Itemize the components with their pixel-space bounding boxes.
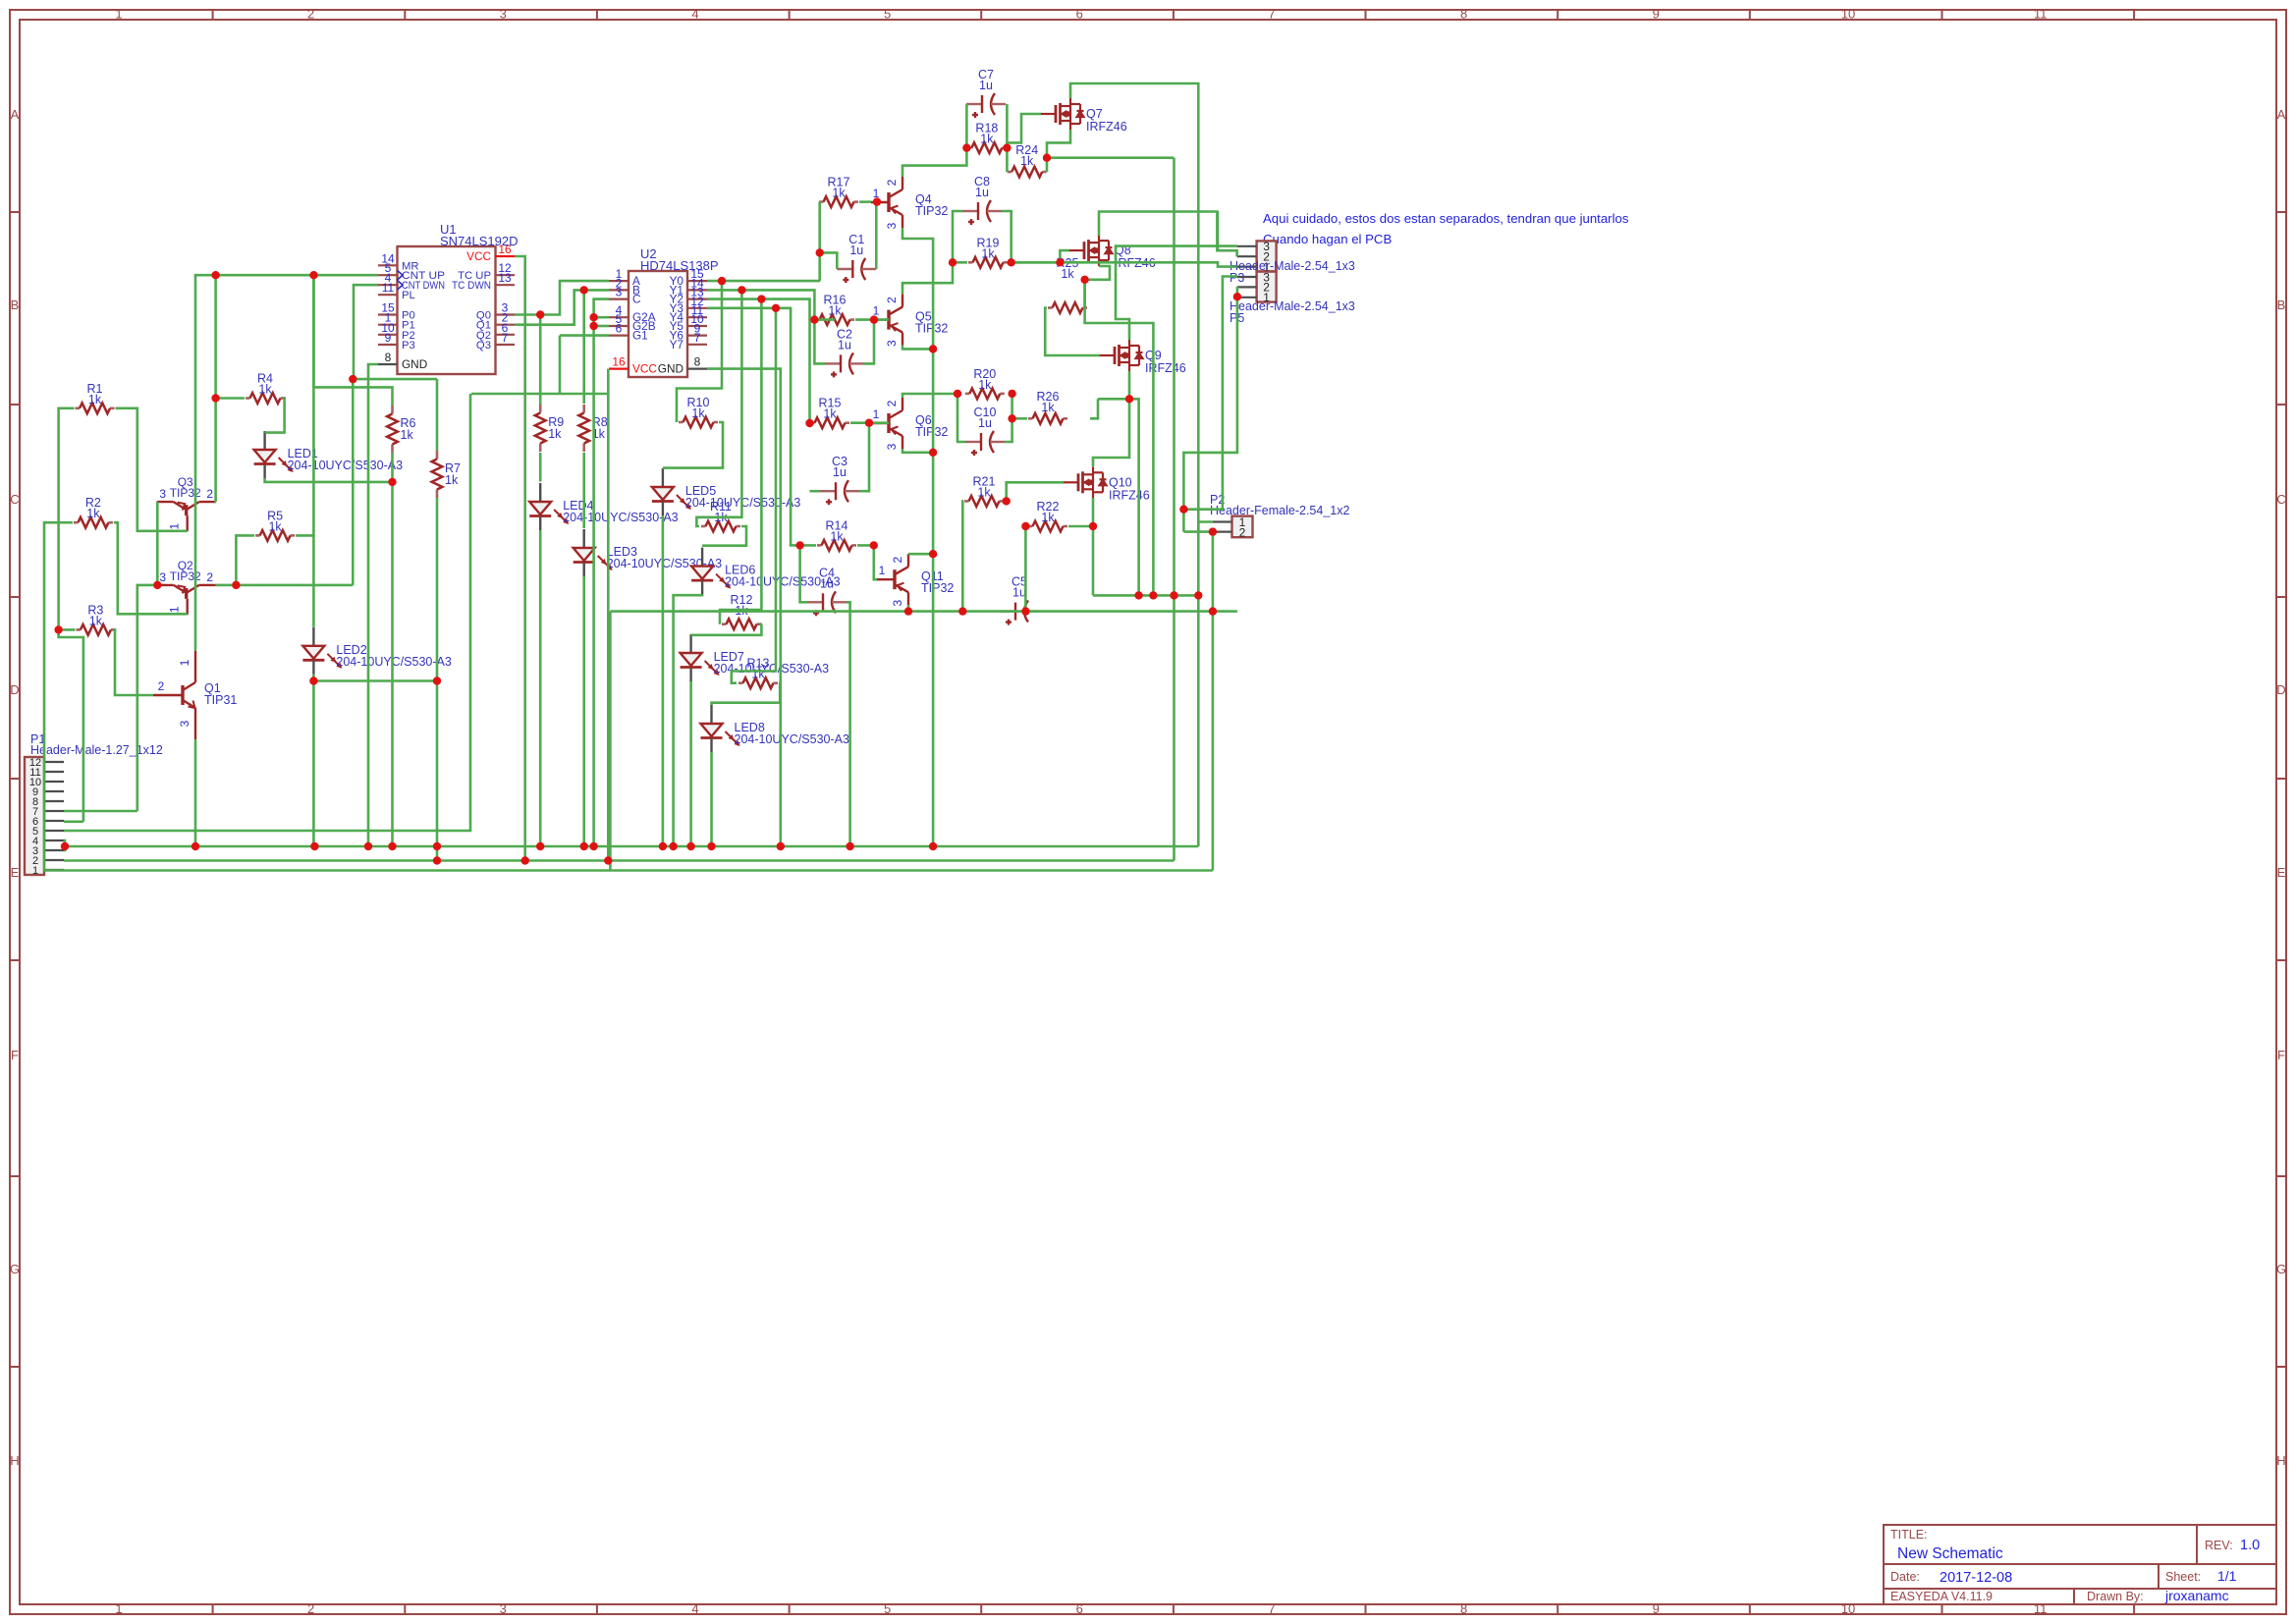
wire R19.right to Q8 gate [1009, 250, 1069, 262]
frame column tick top [212, 10, 214, 20]
svg-text:1.0: 1.0 [2240, 1538, 2260, 1553]
wire LED7 cathode to GND row [689, 681, 692, 846]
P3 pin 2 stub [1237, 255, 1257, 257]
svg-text:VCC: VCC [632, 362, 657, 376]
svg-text:G1: G1 [632, 329, 648, 343]
junction [1125, 395, 1133, 403]
wire P5.1 column [1183, 297, 1237, 531]
wire Q0 drop to R9 [539, 315, 542, 406]
wire R24 column down [1173, 158, 1175, 861]
wire Q1 emitter to GND row [194, 739, 197, 846]
svg-text:2: 2 [1239, 526, 1246, 540]
junction [433, 677, 441, 684]
P1 pin 11 stub [44, 771, 64, 773]
resistor R18 [967, 146, 972, 149]
frame column tick bottom [596, 1604, 598, 1614]
transistor Q5 [871, 295, 902, 346]
wire VCC bus to P1.5 [64, 394, 470, 831]
wire R7 bottom to bus [436, 498, 439, 861]
P1 pin 12 stub [44, 761, 64, 763]
junction [604, 856, 612, 864]
svg-text:2: 2 [307, 7, 314, 22]
wire Y1 to R16 [707, 290, 814, 319]
svg-text:1k: 1k [1061, 267, 1074, 281]
LED LED4 [529, 483, 569, 530]
wire C4.right to GND row [847, 602, 850, 846]
svg-text:H: H [10, 1453, 19, 1468]
svg-text:TIP32: TIP32 [921, 581, 954, 595]
wire Q11 emitter down [907, 605, 910, 611]
wire R2.left to P1.1 row [44, 522, 73, 870]
wire C1.left tap [820, 252, 838, 269]
junction [904, 607, 912, 615]
wire R11 to LED6 [702, 526, 746, 546]
svg-text:1: 1 [879, 564, 886, 577]
svg-text:204-10UYC/S530-A3: 204-10UYC/S530-A3 [725, 575, 840, 589]
svg-text:Header-Male-1.27_1x12: Header-Male-1.27_1x12 [30, 743, 163, 757]
svg-text:B: B [11, 298, 20, 312]
P5 pin 3 stub [1237, 276, 1257, 278]
IC U2 HD74LS138P [629, 271, 687, 377]
wire C1.right to Q4 base [875, 202, 878, 269]
frame column tick bottom [1173, 1604, 1175, 1614]
svg-text:GND: GND [402, 357, 427, 371]
wire Q9 source down [1128, 371, 1131, 399]
junction [536, 842, 544, 850]
wire R25.right drop [1083, 280, 1086, 308]
P1 pin 5 stub [44, 830, 64, 832]
svg-text:Date:: Date: [1890, 1570, 1920, 1584]
svg-text:3: 3 [885, 443, 899, 450]
svg-text:3: 3 [159, 487, 166, 501]
wire C8.right to R19.right [1002, 211, 1011, 262]
wire Q6 emitter to column [902, 449, 933, 453]
P1 pin 3 stub [44, 849, 64, 851]
svg-text:IRFZ46: IRFZ46 [1109, 488, 1150, 502]
svg-text:3: 3 [891, 600, 904, 607]
U2 GND pin 8 [687, 368, 707, 370]
svg-text:13: 13 [498, 271, 512, 285]
junction [1194, 591, 1202, 599]
svg-text:5: 5 [884, 1601, 891, 1616]
junction [1002, 497, 1010, 505]
wire P1.6 run [64, 820, 83, 823]
wire Q8 source jog [1085, 266, 1110, 280]
LED LED3 [574, 529, 613, 576]
wire C2.right loop [864, 320, 874, 364]
wire CNT UP drop to R5.right/LED2 [312, 275, 315, 626]
svg-text:7: 7 [502, 331, 509, 345]
svg-text:1u: 1u [849, 244, 863, 257]
frame column tick bottom [980, 1604, 982, 1614]
frame column tick top [1173, 10, 1175, 20]
U1 pin 5 CNT UP [378, 274, 398, 276]
frame row tick right [2276, 211, 2286, 213]
wire Y2 to R12 [720, 299, 761, 624]
resistor R9 [539, 405, 542, 413]
wire R21.right node [1005, 500, 1007, 503]
svg-text:Aqui cuidado, estos dos estan: Aqui cuidado, estos dos estan separados,… [1263, 211, 1629, 226]
U1 pin 3 Q0 [496, 313, 516, 315]
resistor R24 [1008, 171, 1012, 174]
frame column tick top [789, 10, 791, 20]
junction [962, 143, 970, 151]
wire Y0 to R10 [677, 281, 722, 422]
U2 pin 1 A [609, 280, 629, 282]
P1 pin 1 stub [44, 869, 64, 871]
transistor Q6 [871, 398, 902, 449]
resistor R5 [255, 534, 260, 537]
frame row tick right [2276, 1366, 2286, 1368]
junction [54, 625, 62, 633]
svg-text:1u: 1u [833, 465, 847, 479]
LED LED1 [254, 431, 294, 478]
junction [1021, 522, 1029, 530]
svg-text:1k: 1k [445, 473, 459, 487]
wire Q5 emitter to column [902, 346, 933, 350]
wire R5.right stub [296, 534, 313, 537]
svg-text:3: 3 [616, 286, 623, 299]
junction [589, 313, 597, 321]
frame column tick bottom [2133, 1604, 2135, 1614]
header P3 Header-Male-2.54_1x3 [1257, 241, 1277, 271]
wire P1.4-P1.3 tie [64, 840, 65, 850]
U2 pin 6 G1 [609, 335, 629, 337]
U1 pin 12 TC UP [496, 274, 516, 276]
wire G1 run [560, 334, 609, 337]
svg-text:Header-Male-2.54_1x3: Header-Male-2.54_1x3 [1230, 299, 1355, 313]
svg-text:8: 8 [1460, 7, 1467, 22]
junction [61, 842, 69, 850]
wire LED3 cathode to GND row [582, 576, 585, 846]
junction [772, 304, 780, 312]
LED LED2 [302, 627, 342, 675]
junction [659, 842, 667, 850]
wire R22.left link [1025, 525, 1027, 528]
wire LED1 cathode run [265, 478, 393, 482]
svg-text:1k: 1k [89, 614, 103, 627]
junction [521, 856, 529, 864]
frame row tick right [2276, 596, 2286, 598]
svg-text:204-10UYC/S530-A3: 204-10UYC/S530-A3 [735, 732, 849, 746]
junction [1056, 258, 1064, 266]
svg-text:1: 1 [115, 1601, 122, 1616]
capacitor C3 [820, 480, 859, 505]
svg-text:3: 3 [178, 720, 191, 727]
svg-text:E: E [11, 865, 20, 880]
junction [810, 315, 818, 323]
junction [949, 258, 957, 266]
wire R26.left link [1012, 417, 1027, 420]
svg-text:Q3: Q3 [476, 340, 491, 352]
capacitor C4 [807, 591, 847, 616]
junction [1149, 591, 1157, 599]
svg-text:9: 9 [385, 331, 392, 345]
junction [364, 842, 372, 850]
junction [1209, 607, 1217, 615]
svg-text:9: 9 [1653, 1601, 1660, 1616]
wire LED8 cathode to GND row [710, 752, 713, 846]
wire LED6 cathode to GND row [674, 595, 703, 846]
mosfet Q10 [1063, 466, 1107, 498]
U1 pin 10 P2 [378, 334, 398, 336]
junction [211, 271, 219, 279]
junction [958, 607, 966, 615]
svg-text:2: 2 [307, 1601, 314, 1616]
capacitor C8 [962, 200, 1002, 225]
svg-text:1u: 1u [838, 338, 851, 352]
svg-text:4: 4 [691, 1601, 698, 1616]
svg-text:1: 1 [115, 7, 122, 22]
svg-text:TITLE:: TITLE: [1890, 1528, 1928, 1542]
wire G2B stub [594, 325, 609, 328]
frame column tick bottom [212, 1604, 214, 1614]
wire C10.right loop [1005, 394, 1012, 442]
svg-text:Q10: Q10 [1109, 475, 1132, 489]
frame column tick top [596, 10, 598, 20]
svg-text:1k: 1k [401, 428, 414, 442]
wire R26 net to Q9 source [1098, 398, 1129, 401]
junction [1179, 506, 1187, 514]
wire C7.left to R18.left [965, 104, 968, 148]
wire Q8 drain to P3.2 [1099, 212, 1237, 257]
U1 pin 9 P3 [378, 344, 398, 346]
mosfet Q7 [1040, 98, 1084, 130]
svg-text:Q7: Q7 [1086, 107, 1103, 121]
LED LED8 [701, 705, 740, 752]
resistor R15 [810, 421, 815, 424]
svg-text:F: F [2277, 1048, 2285, 1062]
frame row tick left [10, 959, 20, 961]
wire R7 top riser [436, 379, 439, 451]
junction [1209, 527, 1217, 535]
junction [870, 541, 878, 549]
U1 pin 11 PL [378, 294, 398, 296]
wire C/G2A/G2B chain down [594, 299, 609, 846]
wire GND bus row [65, 845, 1198, 848]
junction [310, 842, 318, 850]
frame column tick top [1365, 10, 1367, 20]
junction [929, 449, 937, 457]
wire LED2 cathode to GND row [312, 681, 315, 847]
wire CNT DWN run [354, 378, 437, 381]
wire U2 VCC down [607, 369, 610, 861]
junction [536, 310, 544, 318]
frame column tick bottom [1365, 1604, 1367, 1614]
svg-text:PL: PL [402, 290, 415, 301]
wire Q2.collector run [216, 584, 354, 587]
wire Q9 source to Q10 drain [1093, 399, 1129, 466]
svg-text:1k: 1k [86, 507, 100, 520]
wire R6 top to CNT UP [314, 275, 393, 406]
resistor R6 [391, 406, 394, 414]
P5 pin 1 stub [1237, 297, 1257, 298]
wire R19.left link [953, 261, 967, 264]
svg-text:2017-12-08: 2017-12-08 [1940, 1570, 2012, 1586]
wire Q9 source to out row [1129, 399, 1139, 595]
wire LED2 cathode to R7 column [313, 675, 437, 681]
wire R26.right riser [1090, 399, 1098, 418]
wire R21 to Q10 gate [1007, 482, 1064, 501]
U2 VCC pin 16 [609, 368, 629, 370]
P5 pin 2 stub [1237, 286, 1257, 288]
wire Q2.3 to P1.7 [137, 585, 157, 811]
wire R22.left drop to mid row [1024, 526, 1027, 612]
frame column tick top [1941, 10, 1943, 20]
transistor Q11 [877, 554, 908, 605]
wire R15.right to Q6 base [850, 421, 889, 424]
resistor R8 [582, 405, 585, 413]
junction [1134, 591, 1142, 599]
frame column tick top [404, 10, 406, 20]
wire R4.right to LED1 [265, 399, 286, 433]
svg-text:3: 3 [500, 7, 507, 22]
wire G1 drop [559, 336, 562, 394]
wire Q4 emitter chain [902, 228, 933, 846]
capacitor C10 [965, 431, 1005, 456]
wire R10 to LED5 [663, 422, 723, 468]
wire P1.7 run [64, 810, 137, 813]
wire C2.left loop [814, 320, 825, 364]
U2 pin 5 G2B [609, 325, 629, 327]
wire C10.left loop [957, 394, 965, 442]
P1 pin 9 stub [44, 790, 64, 792]
wire R17.right to base node [859, 200, 871, 203]
junction [589, 842, 597, 850]
resistor R20 [965, 393, 970, 396]
U1 pin 4 CNT DWN [378, 284, 398, 286]
frame column tick bottom [1557, 1604, 1558, 1614]
svg-text:1k: 1k [981, 246, 995, 260]
svg-text:1u: 1u [978, 416, 992, 430]
wire R25.left to Q9 gate [1045, 308, 1100, 356]
wire R13 to LED8 [712, 683, 781, 705]
svg-text:REV:: REV: [2205, 1539, 2233, 1552]
svg-text:1k: 1k [88, 393, 102, 406]
U2 pin 10 Y5 [687, 325, 707, 327]
junction [816, 248, 824, 256]
resistor R4 [246, 397, 250, 400]
wire mid row right drop [1212, 612, 1215, 871]
wire C4.left loop [800, 545, 807, 602]
svg-text:2: 2 [206, 487, 213, 501]
P2 pin 2 stub [1213, 530, 1232, 532]
wire Q6 collector to R20.left [902, 394, 957, 398]
frame row tick left [10, 596, 20, 598]
U1 pin 15 P0 [378, 313, 398, 315]
svg-text:1k: 1k [548, 427, 562, 441]
svg-text:1k: 1k [268, 519, 282, 533]
U1 GND pin 8 [378, 363, 398, 365]
wire C3.left lead link [810, 490, 821, 493]
junction [738, 286, 745, 294]
wire C7.right to R18.right [1006, 104, 1009, 148]
svg-text:2: 2 [885, 179, 899, 186]
junction [929, 345, 937, 352]
mosfet Q9 [1099, 340, 1143, 371]
svg-text:2: 2 [885, 297, 899, 303]
svg-text:7: 7 [694, 331, 701, 345]
svg-text:2: 2 [158, 679, 165, 693]
svg-text:Drawn By:: Drawn By: [2087, 1590, 2144, 1603]
svg-text:1k: 1k [1020, 154, 1034, 168]
junction [589, 322, 597, 330]
wire CNT UP drop to Q3.2 [214, 275, 217, 502]
wire Y1 to R11 [696, 290, 741, 526]
svg-text:2: 2 [206, 570, 213, 584]
wire long mid row [610, 610, 1237, 613]
wire mid row drop to P1.1 row [609, 612, 612, 871]
resistor R7 [436, 451, 439, 460]
junction [795, 541, 803, 549]
U1 pin 4 clock mark [398, 281, 404, 291]
junction [1003, 143, 1011, 151]
svg-text:jroxanamc: jroxanamc [2164, 1588, 2229, 1603]
svg-text:EASYEDA V4.11.9: EASYEDA V4.11.9 [1890, 1590, 1993, 1603]
wire Y3 to R14 [707, 308, 816, 546]
wire Q7 drain to column [1070, 83, 1198, 846]
junction [388, 842, 396, 850]
svg-text:10: 10 [1841, 1601, 1855, 1616]
resistor R19 [968, 261, 973, 264]
junction [954, 390, 961, 398]
frame column tick bottom [1749, 1604, 1751, 1614]
svg-text:8: 8 [694, 355, 701, 369]
junction [388, 478, 396, 486]
junction [433, 856, 441, 864]
wire Q7 source jog [1047, 130, 1070, 158]
wire R6 bottom to GND row [391, 453, 394, 846]
svg-text:11: 11 [2034, 7, 2048, 22]
svg-text:1k: 1k [828, 304, 842, 318]
svg-text:3: 3 [159, 570, 166, 584]
wire Q1 to B [515, 290, 609, 324]
svg-text:8: 8 [385, 351, 392, 364]
junction [580, 286, 588, 294]
svg-text:1: 1 [178, 659, 191, 666]
resistor R21 [964, 500, 969, 503]
wire R3.right to Q1 base [115, 629, 153, 695]
wire R14.right to Q11 base [874, 545, 877, 579]
capacitor C7 [966, 93, 1006, 118]
wire R12 to LED7 [691, 624, 762, 635]
U2 pin 15 Y0 [687, 280, 707, 282]
svg-text:1k: 1k [832, 187, 846, 200]
svg-text:1: 1 [32, 865, 38, 877]
svg-text:VCC: VCC [466, 249, 491, 263]
mosfet Q8 [1068, 235, 1113, 266]
junction [686, 842, 694, 850]
wire R14.right node [857, 544, 874, 547]
svg-text:G: G [2276, 1262, 2286, 1276]
junction [211, 394, 219, 402]
U2 pin 3 C [609, 298, 629, 300]
svg-text:1u: 1u [975, 186, 989, 199]
wire R21.left to mid row [961, 501, 964, 611]
frame row tick left [10, 404, 20, 406]
wire Y0 run [707, 280, 820, 283]
U2 pin 14 Y1 [687, 289, 707, 291]
svg-text:1u: 1u [1012, 586, 1026, 600]
junction [309, 271, 317, 279]
P1 pin 7 stub [44, 810, 64, 812]
wire Q8 source column [1085, 280, 1154, 596]
junction [1008, 258, 1015, 266]
svg-text:TIP32: TIP32 [915, 204, 948, 218]
frame row tick right [2276, 404, 2286, 406]
U2 pin 2 B [609, 289, 629, 291]
junction [1080, 276, 1088, 284]
